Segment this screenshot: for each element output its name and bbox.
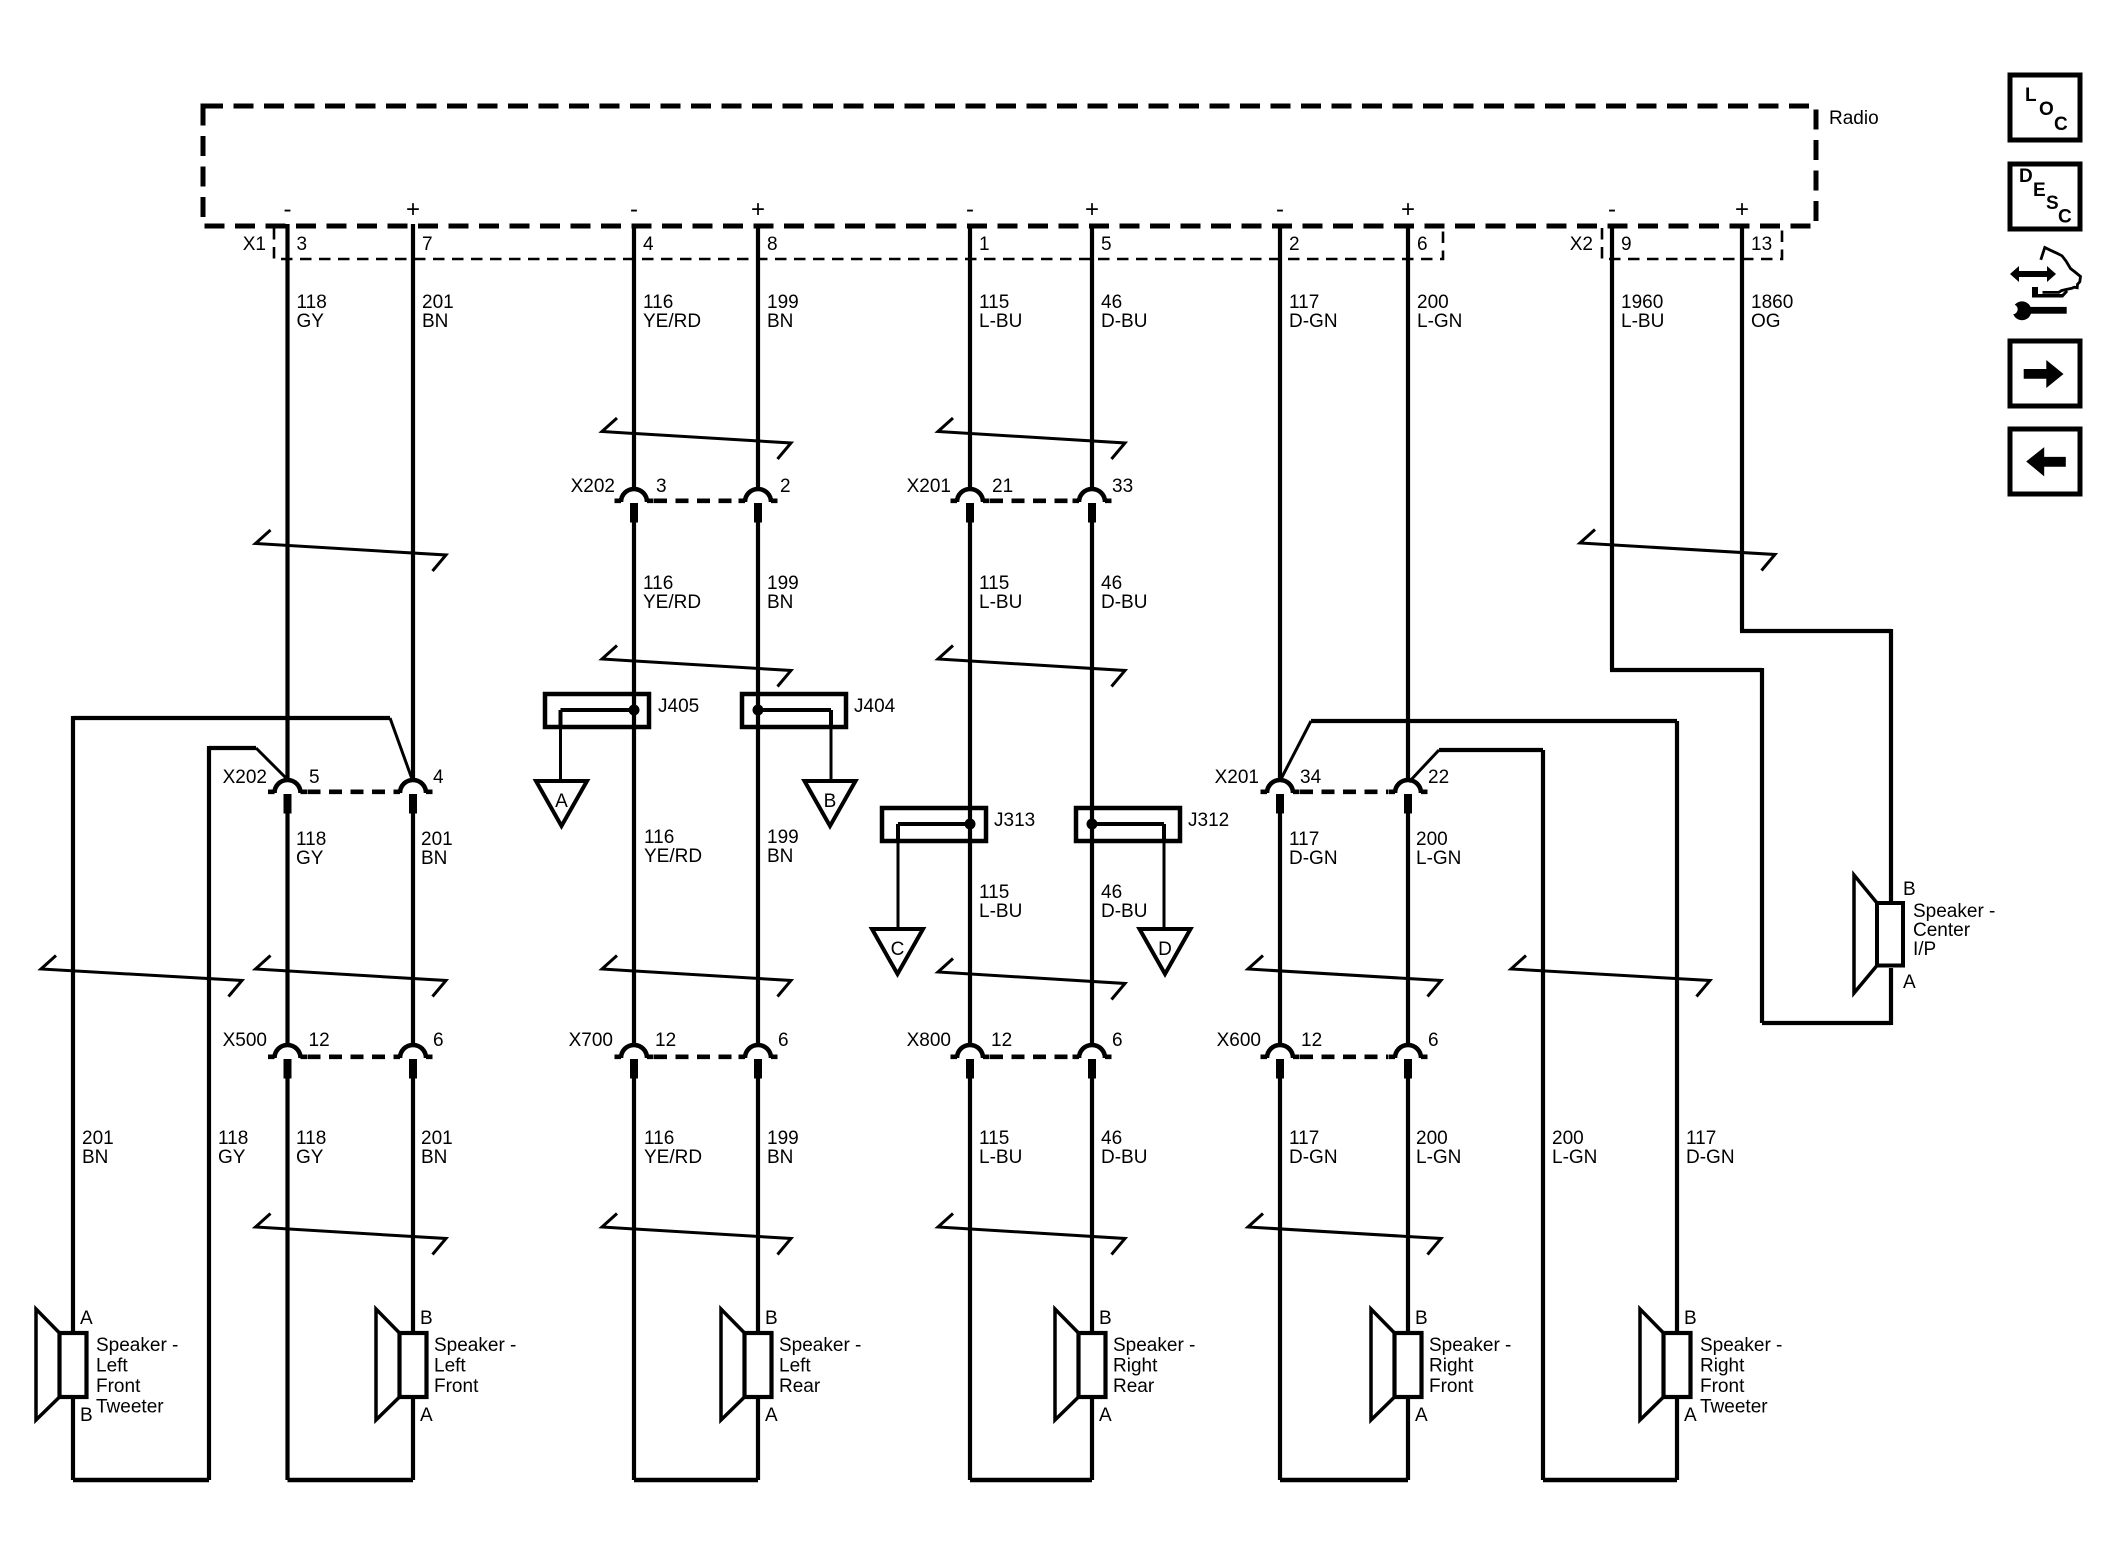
pin number 2 <box>1289 234 1300 255</box>
pin number 13 <box>1751 234 1772 255</box>
svg-text:6: 6 <box>433 1030 444 1051</box>
svg-text:116: 116 <box>644 827 674 848</box>
label X500 <box>223 1030 267 1051</box>
svg-text:D-BU: D-BU <box>1101 901 1147 922</box>
pin number 6 <box>1112 1030 1123 1051</box>
wire label 117 D-GN <box>1289 829 1338 869</box>
svg-text:118: 118 <box>296 829 326 850</box>
connector X500 cavity 6 <box>394 1045 433 1079</box>
wire 115 L-BU below X800 <box>970 1075 1092 1480</box>
connector X201 cavity 34 <box>1261 780 1300 814</box>
X600 dashed link <box>1300 1055 1388 1060</box>
splice J312 <box>1076 808 1180 841</box>
svg-text:O: O <box>2039 99 2054 120</box>
svg-text:L: L <box>2025 85 2037 106</box>
svg-text:Center: Center <box>1913 920 1971 941</box>
crossing right tweeter pair <box>1511 956 1710 997</box>
svg-text:117: 117 <box>1289 292 1319 313</box>
crossing 115/46 mid <box>938 646 1125 687</box>
pin number 12 <box>991 1030 1012 1051</box>
wire 117 D-GN right tweeter branch <box>1311 721 1677 1333</box>
svg-text:12: 12 <box>1301 1030 1322 1051</box>
Speaker Right Front <box>1371 1309 1422 1420</box>
svg-text:I/P: I/P <box>1913 939 1936 960</box>
wire 200 L-GN from X1-6 to X201-22 <box>1406 224 1410 781</box>
wire label 46 D-BU <box>1101 573 1147 613</box>
svg-text:Front: Front <box>434 1376 479 1397</box>
svg-text:X700: X700 <box>569 1030 613 1051</box>
wire label 200 L-GN <box>1552 1128 1597 1168</box>
wire label 199 BN <box>767 1128 799 1168</box>
pin number 6 <box>1428 1030 1439 1051</box>
Speaker Left Rear <box>721 1309 772 1420</box>
svg-text:46: 46 <box>1101 292 1122 313</box>
speaker LR bottom stub <box>756 1395 760 1480</box>
pin number 6 <box>778 1030 789 1051</box>
speaker RR bottom stub <box>1090 1395 1094 1480</box>
Speaker Left Front Tweeter <box>36 1309 87 1420</box>
wire label 46 D-BU <box>1101 882 1147 922</box>
connector X800 cavity 6 <box>1073 1045 1112 1079</box>
svg-text:-: - <box>630 196 638 223</box>
wire label 201 BN <box>82 1128 114 1168</box>
radio pin 6 polarity + <box>1401 196 1415 223</box>
connector X202 cavity 2 <box>739 489 778 523</box>
pin number 12 <box>655 1030 676 1051</box>
X202 dashed link <box>654 498 738 503</box>
wire 118 GY from X1-3 to X202-5 <box>285 224 289 781</box>
svg-text:B: B <box>1415 1308 1428 1329</box>
crossing 1960/1860 <box>1580 530 1775 571</box>
wire 46 D-BU below X800 <box>1090 1075 1094 1333</box>
svg-text:3: 3 <box>297 234 308 255</box>
pin number 7 <box>422 234 433 255</box>
wire 201 BN below X500 <box>411 1075 415 1333</box>
wire 199 BN to X700-6 <box>756 519 760 1046</box>
X700 dashed link <box>654 1055 738 1060</box>
svg-text:GY: GY <box>297 311 325 332</box>
svg-text:YE/RD: YE/RD <box>643 592 701 613</box>
svg-text:118: 118 <box>296 1128 326 1149</box>
svg-text:118: 118 <box>218 1128 248 1149</box>
LOC button <box>2010 75 2080 140</box>
pin number 2 <box>780 476 791 497</box>
svg-text:B: B <box>1684 1308 1697 1329</box>
label X700 <box>569 1030 613 1051</box>
crossing 115/46 row4 <box>938 1214 1125 1255</box>
wire label 199 BN <box>767 573 799 613</box>
svg-text:B: B <box>1903 879 1916 900</box>
svg-text:12: 12 <box>991 1030 1012 1051</box>
radio pin 9 polarity - <box>1608 196 1616 223</box>
wire 46 D-BU to X800-6 <box>1090 519 1094 1046</box>
svg-text:-: - <box>284 196 292 223</box>
label Speaker - Right Rear <box>1113 1335 1195 1397</box>
svg-text:A: A <box>1099 1405 1112 1426</box>
X202 dashed link lower <box>308 789 394 794</box>
pin number 6 <box>1417 234 1428 255</box>
back arrow button <box>2010 429 2080 494</box>
svg-text:22: 22 <box>1428 767 1449 788</box>
svg-text:Front: Front <box>1429 1376 1474 1397</box>
pin A label <box>1415 1405 1428 1426</box>
ground stub D <box>1163 842 1166 929</box>
svg-text:201: 201 <box>422 292 454 313</box>
connector X700 cavity 6 <box>739 1045 778 1079</box>
svg-text:Right: Right <box>1429 1356 1474 1377</box>
svg-text:Speaker -: Speaker - <box>1113 1335 1195 1356</box>
wire label 115 L-BU <box>979 573 1022 613</box>
svg-text:D: D <box>2019 166 2033 187</box>
svg-text:Speaker -: Speaker - <box>1700 1335 1782 1356</box>
svg-text:Right: Right <box>1113 1356 1158 1377</box>
svg-text:YE/RD: YE/RD <box>644 846 702 867</box>
svg-text:X2: X2 <box>1570 234 1593 255</box>
X201 dashed link lower <box>1300 789 1388 794</box>
svg-text:D: D <box>1158 939 1172 960</box>
wire 117 D-GN below X600 <box>1280 1075 1408 1480</box>
ground ground C <box>872 929 923 974</box>
pin B label <box>80 1405 93 1426</box>
label Speaker - Right Front <box>1429 1335 1511 1397</box>
label X201 <box>1215 767 1259 788</box>
svg-text:115: 115 <box>979 292 1009 313</box>
svg-text:D-GN: D-GN <box>1289 1147 1338 1168</box>
connector X201 cavity 22 <box>1389 780 1428 814</box>
svg-text:117: 117 <box>1686 1128 1716 1149</box>
svg-text:Speaker -: Speaker - <box>96 1335 178 1356</box>
wire label 1860 OG <box>1751 292 1793 332</box>
svg-text:L-BU: L-BU <box>979 592 1022 613</box>
svg-text:2: 2 <box>1289 234 1300 255</box>
svg-text:A: A <box>420 1405 433 1426</box>
svg-text:34: 34 <box>1300 767 1322 788</box>
svg-text:X201: X201 <box>907 476 951 497</box>
svg-text:GY: GY <box>218 1147 246 1168</box>
svg-text:S: S <box>2046 193 2059 214</box>
wire 116 YE/RD to X700-12 <box>632 519 636 1046</box>
label Speaker - Right Front Tweeter <box>1700 1335 1782 1418</box>
radio pin 5 polarity + <box>1085 196 1099 223</box>
wire label 117 D-GN <box>1686 1128 1735 1168</box>
ground stub B <box>830 727 833 781</box>
svg-text:X201: X201 <box>1215 767 1259 788</box>
svg-text:X800: X800 <box>907 1030 951 1051</box>
svg-text:199: 199 <box>767 573 799 594</box>
svg-text:D-GN: D-GN <box>1686 1147 1735 1168</box>
ground ground D <box>1140 929 1191 974</box>
svg-text:116: 116 <box>643 292 673 313</box>
svg-text:6: 6 <box>1112 1030 1123 1051</box>
pin B label <box>1099 1308 1112 1329</box>
svg-text:201: 201 <box>421 1128 453 1149</box>
svg-text:C: C <box>2054 114 2068 135</box>
wire 200 L-GN to X600-6 <box>1406 810 1410 1046</box>
svg-text:D-GN: D-GN <box>1289 311 1338 332</box>
wire label 1960 L-BU <box>1621 292 1664 332</box>
pin number 9 <box>1621 234 1632 255</box>
radio pin 2 polarity - <box>1276 196 1284 223</box>
svg-text:200: 200 <box>1416 1128 1448 1149</box>
svg-text:GY: GY <box>296 1147 324 1168</box>
svg-text:6: 6 <box>1417 234 1428 255</box>
svg-text:X500: X500 <box>223 1030 267 1051</box>
pin number 33 <box>1112 476 1133 497</box>
svg-text:L-BU: L-BU <box>979 901 1022 922</box>
pin number 12 <box>1301 1030 1322 1051</box>
svg-text:A: A <box>555 791 568 812</box>
svg-text:117: 117 <box>1289 1128 1319 1149</box>
wire 200 L-GN below X600 <box>1406 1075 1410 1333</box>
wire label 118 GY <box>296 829 326 869</box>
pin A label <box>420 1405 433 1426</box>
connector X202 cavity 3 <box>615 489 654 523</box>
label J313 <box>994 810 1035 831</box>
svg-text:BN: BN <box>422 311 448 332</box>
svg-text:+: + <box>406 196 420 223</box>
ground ground B <box>805 781 856 826</box>
connector X2 bracket <box>1602 228 1782 259</box>
svg-text:46: 46 <box>1101 882 1122 903</box>
svg-text:L-GN: L-GN <box>1552 1147 1597 1168</box>
svg-text:X202: X202 <box>571 476 615 497</box>
svg-text:21: 21 <box>992 476 1013 497</box>
wire 118 GY to X500-12 <box>285 810 289 1046</box>
connector X600 cavity 12 <box>1261 1045 1300 1079</box>
svg-text:1: 1 <box>979 234 990 255</box>
crossing 116/199 mid <box>602 646 791 687</box>
wire 115 L-BU from X1-1 to X201-21 <box>968 224 972 490</box>
svg-text:B: B <box>420 1308 433 1329</box>
wire label 116 YE/RD <box>644 1128 702 1168</box>
wire label 118 GY <box>297 292 327 332</box>
pin B label <box>1684 1308 1697 1329</box>
speaker RF bottom stub <box>1406 1395 1410 1480</box>
X500 dashed link <box>308 1055 394 1060</box>
crossing tweeter pair <box>41 956 242 997</box>
connector X201 cavity 33 <box>1073 489 1112 523</box>
svg-text:L-BU: L-BU <box>979 311 1022 332</box>
svg-text:D-BU: D-BU <box>1101 1147 1147 1168</box>
wire label 199 BN <box>767 292 799 332</box>
svg-text:6: 6 <box>1428 1030 1439 1051</box>
svg-text:L-BU: L-BU <box>1621 311 1664 332</box>
svg-text:-: - <box>1276 196 1284 223</box>
crossing 116/199 row4 <box>602 1214 791 1255</box>
svg-text:A: A <box>765 1405 778 1426</box>
svg-text:116: 116 <box>643 573 673 594</box>
svg-text:B: B <box>824 791 837 812</box>
wire 117 D-GN to X600-12 <box>1278 810 1282 1046</box>
svg-text:7: 7 <box>422 234 433 255</box>
label Radio <box>1829 108 1879 129</box>
wire label 116 YE/RD <box>643 292 701 332</box>
crossing 117/200 row3 <box>1248 956 1441 997</box>
svg-text:+: + <box>751 196 765 223</box>
wire label 200 L-GN <box>1416 829 1461 869</box>
label X202 <box>571 476 615 497</box>
svg-text:-: - <box>966 196 974 223</box>
branch diagonal to X202-5 <box>256 748 287 779</box>
X201 dashed link <box>990 498 1072 503</box>
svg-text:117: 117 <box>1289 829 1319 850</box>
svg-text:116: 116 <box>644 1128 674 1149</box>
svg-text:GY: GY <box>296 848 324 869</box>
crossing 115/46 upper <box>938 418 1125 459</box>
svg-text:Left: Left <box>96 1356 128 1377</box>
pin number 3 <box>297 234 308 255</box>
svg-text:12: 12 <box>655 1030 676 1051</box>
svg-text:B: B <box>80 1405 93 1426</box>
pin A label <box>765 1405 778 1426</box>
wire 1860 OG from X2-13 <box>1740 224 1891 903</box>
svg-text:D-BU: D-BU <box>1101 592 1147 613</box>
svg-text:BN: BN <box>767 1147 793 1168</box>
svg-text:A: A <box>1684 1405 1697 1426</box>
Radio box <box>203 106 1816 226</box>
wire 116 YE/RD from X1-4 to X202-3 <box>632 224 636 490</box>
wire label 118 GY <box>218 1128 248 1168</box>
Speaker Center I/P <box>1854 875 1903 993</box>
svg-text:J405: J405 <box>658 696 699 717</box>
wire 46 D-BU from X1-5 to X201-33 <box>1090 224 1094 490</box>
connector X500 cavity 12 <box>268 1045 307 1078</box>
svg-text:199: 199 <box>767 827 799 848</box>
center speaker A stub <box>1889 968 1893 1025</box>
radio pin 13 polarity + <box>1735 196 1749 223</box>
svg-text:Front: Front <box>1700 1376 1745 1397</box>
connector X202 cavity 5 <box>268 780 307 813</box>
wire 116 YE/RD below X700 <box>634 1075 758 1480</box>
wire label 201 BN <box>421 1128 453 1168</box>
svg-text:BN: BN <box>767 311 793 332</box>
label J405 <box>658 696 699 717</box>
crossing 118/201 row3 <box>256 956 447 997</box>
svg-text:B: B <box>1099 1308 1112 1329</box>
svg-text:A: A <box>1415 1405 1428 1426</box>
pin B label <box>765 1308 778 1329</box>
label Speaker - Left Rear <box>779 1335 861 1397</box>
pin number 1 <box>979 234 990 255</box>
svg-text:+: + <box>1735 196 1749 223</box>
pin number 12 <box>309 1030 330 1051</box>
wire 201 BN tweeter branch <box>73 716 390 1333</box>
crossing 116/199 row3 <box>602 956 791 997</box>
svg-text:Front: Front <box>96 1376 141 1397</box>
svg-text:Left: Left <box>779 1356 811 1377</box>
splice J404 <box>742 694 846 727</box>
svg-text:YE/RD: YE/RD <box>643 311 701 332</box>
pin number 4 <box>643 234 654 255</box>
wire 199 BN from X1-8 to X202-2 <box>756 224 760 490</box>
left tweeter loop bottom <box>73 1395 209 1480</box>
connector X800 cavity 12 <box>951 1045 990 1079</box>
splice J405 <box>545 694 649 727</box>
speaker LF bottom stub <box>411 1395 415 1480</box>
splice J313 <box>882 808 986 841</box>
svg-text:201: 201 <box>421 829 453 850</box>
wire 200 L-GN right tweeter branch <box>1439 750 1543 1480</box>
svg-text:BN: BN <box>767 846 793 867</box>
svg-text:1960: 1960 <box>1621 292 1663 313</box>
branch diagonal to X201-22 <box>1409 750 1439 782</box>
X800 dashed link <box>990 1055 1072 1060</box>
pin B label <box>1903 879 1916 900</box>
wire label 116 YE/RD <box>644 827 702 867</box>
pin number 8 <box>767 234 778 255</box>
svg-text:6: 6 <box>778 1030 789 1051</box>
label Speaker Center I/P <box>1913 901 1995 960</box>
radio pin 8 polarity + <box>751 196 765 223</box>
svg-text:D-GN: D-GN <box>1289 848 1338 869</box>
radio pin 1 polarity - <box>966 196 974 223</box>
pin number 22 <box>1428 767 1449 788</box>
svg-text:E: E <box>2033 180 2046 201</box>
svg-text:+: + <box>1401 196 1415 223</box>
wire 115 L-BU to X800-12 <box>968 519 972 1046</box>
Speaker Right Rear <box>1055 1309 1106 1420</box>
svg-text:D-BU: D-BU <box>1101 311 1147 332</box>
wire label 115 L-BU <box>979 882 1022 922</box>
svg-text:+: + <box>1085 196 1099 223</box>
Speaker Left Front <box>376 1309 427 1420</box>
wire label 117 D-GN <box>1289 292 1338 332</box>
svg-text:46: 46 <box>1101 1128 1122 1149</box>
wire label 199 BN <box>767 827 799 867</box>
wire 118 GY below X500 <box>288 1075 414 1480</box>
svg-text:BN: BN <box>82 1147 108 1168</box>
svg-text:12: 12 <box>309 1030 330 1051</box>
pin B label <box>420 1308 433 1329</box>
wire label 117 D-GN <box>1289 1128 1338 1168</box>
label X2 <box>1570 234 1593 255</box>
svg-text:C: C <box>891 939 905 960</box>
pin A label <box>80 1308 93 1329</box>
wire label 115 L-BU <box>979 292 1022 332</box>
pin A label <box>1099 1405 1112 1426</box>
svg-text:-: - <box>1608 196 1616 223</box>
svg-text:199: 199 <box>767 1128 799 1149</box>
label J404 <box>854 696 896 717</box>
svg-text:BN: BN <box>421 1147 447 1168</box>
wire label 118 GY <box>296 1128 326 1168</box>
svg-text:115: 115 <box>979 573 1009 594</box>
label X600 <box>1217 1030 1261 1051</box>
wire label 200 L-GN <box>1417 292 1462 332</box>
svg-text:199: 199 <box>767 292 799 313</box>
svg-text:BN: BN <box>421 848 447 869</box>
crossing 118/201 row4 <box>256 1214 447 1255</box>
pin number 6 <box>433 1030 444 1051</box>
svg-text:2: 2 <box>780 476 791 497</box>
svg-text:L-GN: L-GN <box>1416 1147 1461 1168</box>
wire label 46 D-BU <box>1101 292 1147 332</box>
pin A label <box>1684 1405 1697 1426</box>
wire 1960 L-BU from X2-9 <box>1610 224 1891 1023</box>
crossing 117/200 row4 <box>1248 1214 1441 1255</box>
ground stub A <box>559 727 562 781</box>
label X202 <box>223 767 267 788</box>
svg-text:200: 200 <box>1552 1128 1584 1149</box>
pin number 5 <box>1101 234 1112 255</box>
svg-text:5: 5 <box>1101 234 1112 255</box>
pin number 5 <box>309 767 320 788</box>
svg-text:3: 3 <box>656 476 667 497</box>
wire label 115 L-BU <box>979 1128 1022 1168</box>
pin number 4 <box>433 767 444 788</box>
wire 118 GY tweeter branch <box>209 746 256 1480</box>
svg-text:Rear: Rear <box>1113 1376 1155 1397</box>
